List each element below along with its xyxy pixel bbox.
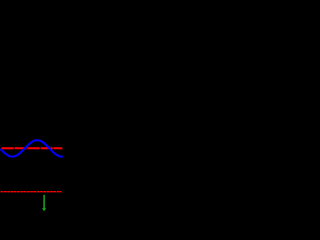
rest line (red dotted) — [1, 191, 62, 193]
equilibrium line (red dashed) — [1, 147, 62, 149]
rest line underlay (faint red) — [1, 191, 62, 193]
equilibrium line underlay (faint red) — [1, 147, 62, 149]
wave curve (blue sine) — [1, 140, 62, 156]
velocity arrow (green, pointing down) — [42, 195, 46, 211]
